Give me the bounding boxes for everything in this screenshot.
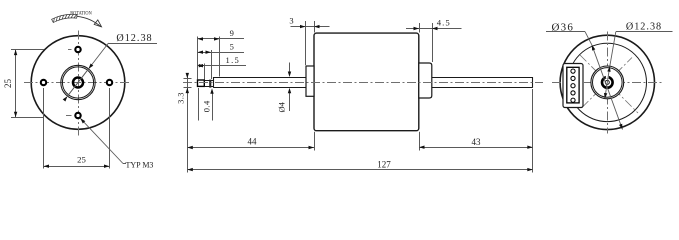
shaft step line: [213, 77, 215, 88]
svg-text:25: 25: [3, 79, 13, 89]
dim 5 extension line: [211, 50, 213, 79]
dim 9 extension lines: [197, 37, 199, 80]
dim 3.3 ticks: [184, 78, 192, 80]
front bearing boss: [306, 66, 314, 96]
rear shaft top line: [432, 77, 533, 79]
dim 5 dimension line: [198, 52, 245, 54]
svg-text:44: 44: [248, 137, 258, 147]
top hole tick: [68, 49, 72, 51]
shaft small section top line: [204, 80, 213, 82]
rotation arrow hatched tail: [52, 14, 78, 22]
svg-text:TYP M3: TYP M3: [126, 161, 154, 170]
dim O4 leader: [289, 63, 291, 72]
dim 3 dimension line: [291, 26, 330, 28]
left view hub outer double ring: [61, 65, 95, 99]
right view inner rim circle: [568, 43, 646, 121]
main shaft top line: [214, 77, 315, 79]
svg-text:127: 127: [377, 159, 391, 169]
svg-text:43: 43: [472, 137, 482, 147]
connector pin 5: [571, 98, 575, 102]
dim 43 dimension line: [419, 147, 533, 149]
main shaft bottom line: [214, 87, 315, 89]
dim O36 leader: [585, 32, 592, 45]
svg-text:Ø4: Ø4: [277, 101, 287, 112]
rear shaft end line: [532, 77, 534, 87]
dim 127 dimension line: [187, 169, 533, 171]
shaft small section bottom line: [204, 86, 213, 88]
svg-text:25: 25: [77, 154, 86, 164]
dim 9 dimension line: [198, 38, 245, 40]
shaft groove: [209, 80, 211, 88]
dim 1.5 extension line: [204, 64, 206, 80]
svg-text:Ø12.38: Ø12.38: [626, 21, 662, 32]
right view outer circle: [560, 35, 654, 129]
middle view centerline: [183, 82, 543, 84]
dim 4.5 dimension line: [406, 28, 462, 30]
dim O12.38 right: tail: [616, 31, 673, 33]
shaft tip block: [198, 80, 205, 86]
dim O36 line across circle: [592, 45, 623, 130]
svg-text:3: 3: [289, 16, 293, 26]
centerline over shaft: [183, 82, 543, 84]
svg-text:5: 5: [230, 42, 234, 52]
svg-text:4.5: 4.5: [437, 17, 451, 27]
dim 1.5 dimension line: [198, 65, 247, 67]
mounting hole bottom: [75, 113, 80, 118]
right view diagonal centerline NW-SE: [580, 55, 638, 113]
svg-text:0.4: 0.4: [202, 100, 212, 112]
rear shaft bottom line: [432, 87, 533, 89]
right hub shaft circle: [605, 80, 609, 84]
svg-text:3.3: 3.3: [175, 92, 185, 104]
dim 0.4 leader: [212, 92, 214, 121]
right hub double ring: [591, 66, 624, 99]
svg-text:Ø12.38: Ø12.38: [116, 33, 152, 44]
motor body: [314, 33, 419, 131]
bottom hole tick: [66, 115, 72, 117]
mounting hole right: [107, 80, 112, 85]
rotation arrow open head: [94, 20, 101, 27]
dim 44 dimension line: [187, 147, 314, 149]
mounting hole left: [41, 80, 46, 85]
right view horizontal centerline: [552, 82, 663, 84]
bearing ring notch: [606, 74, 609, 78]
dim 43 extension lines: [419, 132, 421, 151]
dim 3.3 vertical line shared with 44/127: [187, 74, 189, 173]
dim 25 vertical: dimension line: [15, 50, 17, 118]
dim 44 extension line right: [314, 132, 316, 151]
rotation arrow thin arc: [77, 16, 101, 27]
left view shaft hole black ring: [73, 78, 83, 88]
dim O12.38 leader across hub: [68, 43, 109, 96]
rear bearing boss: [419, 63, 432, 98]
connector pin 4: [571, 91, 575, 95]
left view: motor front face outer circle: [31, 36, 125, 130]
dim O36 tail: [546, 31, 585, 33]
dim 25 horizontal: extension lines: [43, 88, 45, 169]
dim O12.38 tail: [109, 43, 158, 45]
svg-text:9: 9: [230, 28, 234, 38]
connector housing: [563, 64, 583, 108]
svg-text:Ø36: Ø36: [552, 22, 575, 34]
mounting hole top: [75, 47, 80, 52]
dim 4.5 extension lines: [419, 23, 421, 33]
dim 25 vertical: extension lines: [11, 49, 44, 51]
right hub bearing black ring: [602, 77, 613, 88]
TYP M3 leader: [80, 118, 123, 163]
svg-text:1.5: 1.5: [226, 55, 241, 65]
dim O12.38 right: leader: [610, 32, 616, 66]
connector inner block: [567, 67, 579, 103]
dim 3 extension lines: [305, 21, 307, 65]
left view vertical centerline: [78, 31, 80, 137]
dim O12.38 right: line across hub: [605, 66, 610, 98]
connector pin 1: [571, 69, 575, 73]
left view horizontal centerline: [24, 82, 132, 84]
svg-text:ROTATION: ROTATION: [70, 11, 92, 16]
right view vertical centerline: [607, 32, 609, 134]
right view diagonal centerline SW-NE: [582, 58, 632, 108]
dim 25 horizontal: dimension line: [44, 166, 110, 168]
connector pin 3: [571, 84, 575, 88]
connector pin 2: [571, 76, 575, 80]
